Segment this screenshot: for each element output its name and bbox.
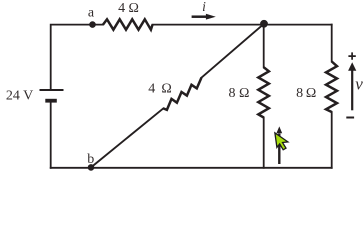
svg-text:a: a (88, 5, 95, 20)
resistor 8Ω right (326, 62, 337, 113)
svg-text:b: b (87, 152, 94, 167)
svg-text:8 Ω: 8 Ω (296, 86, 316, 101)
resistor 4Ω diagonal (163, 78, 201, 110)
wire left (below battery) (50, 102, 52, 168)
svg-text:i: i (202, 0, 206, 14)
wire diagonal (node b to diagonal resistor) (91, 108, 163, 167)
voltage arrow v with polarity (346, 52, 363, 117)
node b (87, 152, 94, 171)
wire diagonal (diagonal resistor to top junction) (201, 24, 264, 78)
svg-text:4 Ω: 4 Ω (148, 81, 172, 96)
current annotation arrow (middle branch, pointing up) (276, 126, 282, 164)
wire middle branch (middle resistor to bottom wire) (263, 118, 265, 168)
wire right (top-right corner down to right resistor) (331, 25, 333, 62)
wire middle branch (junction down to middle resistor) (263, 25, 265, 68)
svg-text:v: v (355, 74, 363, 93)
svg-text:4 Ω: 4 Ω (118, 1, 139, 16)
wire bottom (51, 167, 332, 169)
resistor 8Ω middle (258, 67, 269, 117)
resistor 4Ω top (103, 19, 153, 29)
svg-text:8 Ω: 8 Ω (229, 86, 250, 101)
node a (88, 5, 96, 28)
junction node (top) (260, 20, 268, 28)
wire top (resistor to top-right corner) (153, 24, 332, 26)
svg-text:24 V: 24 V (6, 88, 33, 103)
wire top (left corner to top resistor) (51, 25, 103, 90)
current arrow i (192, 0, 216, 20)
mouse cursor (green pointer) (275, 133, 288, 150)
voltage source 24 V (battery) (40, 90, 64, 101)
wire right (right resistor to bottom-right corner) (331, 112, 333, 168)
